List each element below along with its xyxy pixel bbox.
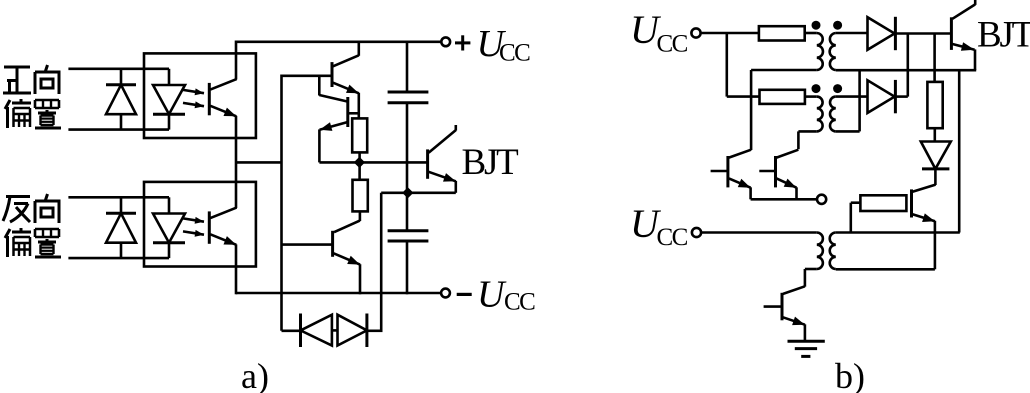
LED D1b xyxy=(153,69,185,130)
phototransistor U1 base bar xyxy=(208,83,211,115)
wire: emitter node down to clamp diodes xyxy=(380,193,383,331)
transistor Q7 collector xyxy=(729,150,751,158)
label +Ucc xyxy=(455,23,530,67)
wire: Q3 collector riser xyxy=(319,76,347,102)
wire: Ucc to R3 xyxy=(701,32,759,35)
label BJT(a) xyxy=(462,142,519,183)
diode D8 xyxy=(868,80,896,113)
transistor Q5 emitter xyxy=(913,213,935,222)
resistor R3 xyxy=(759,26,805,40)
wire: photo1 emitter / photo2 collector vertical xyxy=(235,116,238,208)
wire: node to R2 xyxy=(358,162,361,180)
transistor Q4 emitter xyxy=(334,253,360,264)
label 反向 (reverse) xyxy=(3,194,59,223)
wire: photo1 collector to +Ucc rail xyxy=(235,41,238,80)
svg-text:CC: CC xyxy=(504,289,535,316)
terminal drive output xyxy=(817,195,826,204)
label -Ucc xyxy=(457,274,535,316)
transistor Q5 base bar xyxy=(910,189,913,217)
transistor BJT(b) collector xyxy=(952,0,975,19)
label 正向 (forward) xyxy=(3,65,59,94)
T2 dot primary xyxy=(812,84,821,93)
resistor R4 xyxy=(760,90,805,104)
terminal +Ucc xyxy=(441,37,450,46)
wire: Q4 base xyxy=(282,243,333,246)
wire: Q8 base stub xyxy=(759,170,775,173)
phototransistor U2 base bar xyxy=(208,211,211,243)
transistor BJT(b) base bar xyxy=(950,17,953,50)
terminal Ucc (b top) xyxy=(691,28,700,37)
wire: Q7 base stub xyxy=(711,170,728,173)
wire: T3 secondary top line xyxy=(836,231,960,234)
wire: BJT(a) emitter down xyxy=(454,181,457,193)
wire: T1 primary bottom xyxy=(751,70,817,150)
transistor Q2 collector xyxy=(333,41,359,67)
wire: BJT(b) emitter line xyxy=(836,69,976,72)
transistor Q5 collector xyxy=(913,185,936,192)
phototransistor U1 emitter xyxy=(210,106,236,117)
wire: T1 secondary top to D7 xyxy=(836,32,867,35)
transistor BJT(b) emitter xyxy=(952,42,974,51)
diode D7 xyxy=(868,17,896,50)
label BJT(b) xyxy=(977,14,1030,55)
capacitor C1 xyxy=(388,41,429,193)
phototransistor U1 collector xyxy=(210,79,236,90)
wire: D8 out xyxy=(895,95,907,98)
wire input top U2 xyxy=(68,196,169,199)
wire: R2 to Q4 collector xyxy=(334,211,360,232)
T1 dot primary xyxy=(812,21,821,30)
wire: Q8 emitter down xyxy=(795,187,798,199)
wire: left column vertical xyxy=(280,75,283,331)
wire: T2 secondary top to D8 xyxy=(836,95,867,98)
optocoupler U1 box xyxy=(144,53,256,138)
transistor Q3 emitter xyxy=(320,122,348,131)
svg-text:b): b) xyxy=(835,356,865,393)
resistor R2 xyxy=(353,180,368,212)
transistor BJT(a) emitter xyxy=(429,172,456,182)
svg-text:CC: CC xyxy=(657,31,688,58)
resistor R6 xyxy=(860,195,906,211)
wire: diode pair center link xyxy=(332,329,338,332)
wire: emitter node horizontal xyxy=(381,192,456,195)
wire: D9 to Q5 collector xyxy=(934,169,937,185)
wire: BJT(b) emitter drop xyxy=(974,49,977,70)
wire: to Q2 base xyxy=(282,75,333,78)
phototransistor U2 emitter xyxy=(210,234,236,245)
wire: R6 left lead xyxy=(851,203,861,233)
wire: Q5 emitter down xyxy=(934,221,937,269)
transistor Q4 base bar xyxy=(331,231,334,257)
diode D2a (anti-parallel) xyxy=(106,197,136,258)
LED D2b xyxy=(153,197,185,258)
wire: T3 primary bottom xyxy=(805,269,817,287)
wire: Q6 base stub xyxy=(764,305,782,308)
transistor BJT(a) base bar xyxy=(426,149,429,178)
wire input bottom U2 xyxy=(68,257,169,260)
wire: Q3 base link xyxy=(348,112,359,115)
label Ucc (b top) xyxy=(630,7,688,58)
diode D5 (left, pointing left) xyxy=(301,314,332,348)
transistor Q2 base bar xyxy=(331,62,334,87)
label 偏置 (bias) xyxy=(5,99,61,128)
svg-text:CC: CC xyxy=(499,40,530,67)
svg-text:CC: CC xyxy=(657,224,688,251)
wire: photo2 emitter down to -Ucc rail xyxy=(235,244,238,294)
transformer T3 primary winding xyxy=(817,232,823,269)
wire: R5 to D9 xyxy=(933,128,936,141)
wire input top U1 xyxy=(68,68,169,71)
T1 dot secondary xyxy=(833,21,842,30)
node A dot xyxy=(354,157,365,168)
capacitor C2 xyxy=(388,193,429,294)
transformer T1 secondary winding xyxy=(830,33,836,70)
wire: junction to left column xyxy=(236,161,282,164)
transistor Q6 emitter xyxy=(783,317,805,326)
wire: T2 secondary bottom riser xyxy=(836,70,860,131)
transistor Q8 emitter xyxy=(777,178,797,187)
transistor BJT(a) collector xyxy=(429,125,456,153)
wire: Q3 emitter to node xyxy=(319,161,359,164)
wire: node to BJT base xyxy=(359,161,427,164)
T2 dot secondary xyxy=(833,84,842,93)
wire: Ucc riser to R4 xyxy=(727,33,760,97)
transistor Q8 collector xyxy=(777,150,799,158)
wire: Q4 emitter down xyxy=(359,264,362,294)
wire: emitter line drop xyxy=(958,70,961,232)
label 偏置 (bias) xyxy=(5,228,61,257)
resistor R5 xyxy=(927,82,942,128)
transistor Q6 collector xyxy=(783,286,805,294)
terminal Ucc (b mid) xyxy=(692,228,701,237)
transistor Q7 base bar xyxy=(726,156,729,187)
transistor Q2 emitter xyxy=(333,83,359,94)
diode D6 (right, pointing right) xyxy=(338,314,367,348)
transformer T1 primary winding xyxy=(817,33,823,70)
wire: Ucc to T3 primary xyxy=(701,231,817,234)
wire: +Ucc top rail xyxy=(236,40,441,43)
transistor Q6 base bar xyxy=(781,293,784,321)
light arrows U2 xyxy=(183,217,204,237)
wire: R5 riser xyxy=(933,34,936,83)
transformer T2 primary winding xyxy=(817,97,823,132)
ground xyxy=(788,341,825,356)
wire: D7 to BJT(b) base xyxy=(895,32,951,35)
transistor Q7 emitter xyxy=(729,178,751,187)
transformer T3 secondary winding xyxy=(830,232,836,269)
wire: Q2 emitter down xyxy=(357,93,360,119)
wire: R3 to T1 primary xyxy=(805,32,817,35)
wire: Q7 emitter down xyxy=(751,187,818,199)
wire: Q6 emitter to ground xyxy=(804,324,807,341)
diode D1a (anti-parallel) xyxy=(106,69,136,130)
resistor R1 xyxy=(352,118,367,152)
transformer T2 secondary winding xyxy=(830,97,836,132)
svg-text:a): a) xyxy=(241,356,269,393)
wire: R1 to node xyxy=(358,152,361,163)
svg-text:BJT: BJT xyxy=(977,14,1030,55)
light arrows U1 xyxy=(183,88,204,108)
transistor Q8 base bar xyxy=(774,156,777,187)
wire: clamp diode right link xyxy=(367,329,383,332)
wire input bottom U1 xyxy=(68,128,169,131)
label b) xyxy=(835,356,865,393)
wire: -Ucc bottom rail xyxy=(236,292,441,295)
wire: clamp diode left feed xyxy=(282,329,302,332)
terminal -Ucc xyxy=(441,289,450,298)
transistor Q3 base bar xyxy=(346,97,349,127)
optocoupler U2 box xyxy=(144,182,256,267)
wire: D8 riser xyxy=(906,34,909,97)
label a) xyxy=(241,356,269,393)
wire: R4 to T2 primary xyxy=(805,95,817,98)
diode D9 (down) xyxy=(921,142,951,169)
node B dot xyxy=(402,187,413,198)
svg-text:BJT: BJT xyxy=(462,142,519,183)
wire: T2 primary bottom xyxy=(798,131,816,149)
wire: T3 secondary bottom xyxy=(836,268,935,271)
wire: Q3 emitter down xyxy=(318,129,321,162)
label Ucc (b mid) xyxy=(630,201,688,251)
phototransistor U2 collector xyxy=(210,208,236,219)
svg-text:U: U xyxy=(477,274,507,316)
